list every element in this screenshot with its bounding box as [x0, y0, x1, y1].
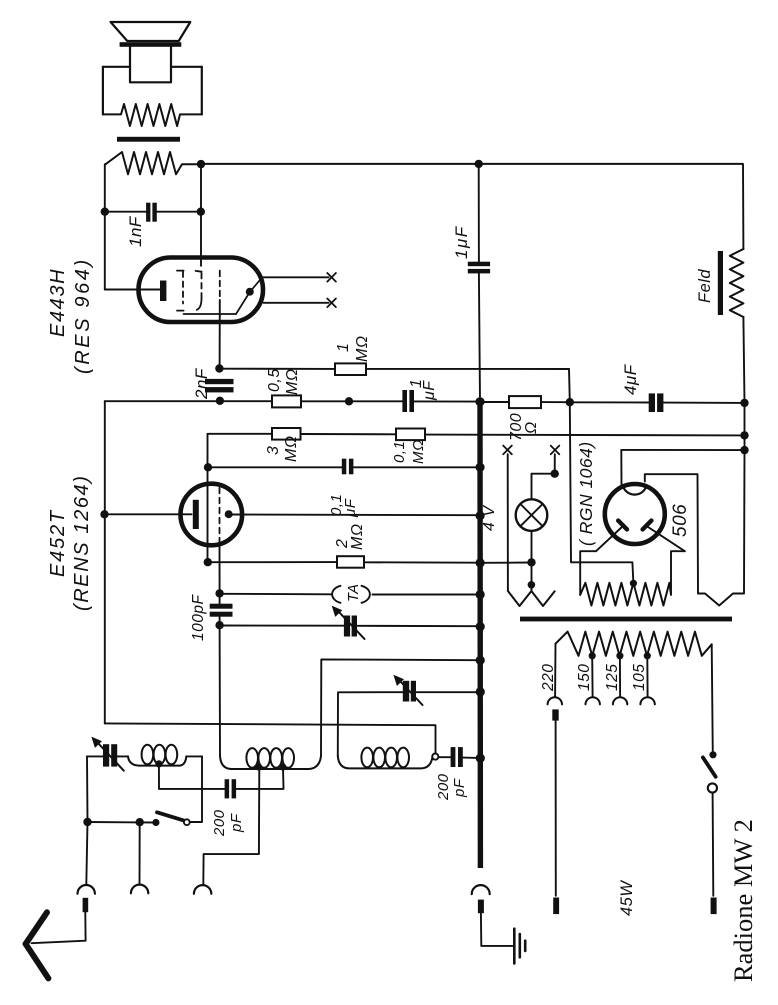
svg-text:MΩ: MΩ	[283, 436, 300, 463]
svg-text:105: 105	[631, 664, 648, 691]
svg-text:pF: pF	[228, 813, 245, 833]
svg-text:E452T: E452T	[47, 509, 69, 577]
svg-text:MΩ: MΩ	[354, 336, 371, 363]
svg-text:Feld: Feld	[696, 269, 714, 303]
svg-text:(RES 964): (RES 964)	[72, 257, 94, 374]
svg-text:Radione MW 2: Radione MW 2	[728, 819, 758, 982]
svg-text:3: 3	[265, 446, 282, 455]
svg-text:4 V: 4 V	[481, 505, 498, 531]
svg-text:μF: μF	[421, 380, 438, 401]
svg-text:150: 150	[576, 664, 593, 691]
svg-text:( RGN 1064): ( RGN 1064)	[576, 441, 596, 546]
svg-text:1nF: 1nF	[126, 215, 145, 247]
svg-text:0,1: 0,1	[391, 441, 408, 463]
svg-text:506: 506	[670, 504, 691, 537]
svg-text:200: 200	[435, 773, 452, 801]
svg-text:1μF: 1μF	[452, 225, 471, 259]
svg-text:4μF: 4μF	[621, 363, 640, 395]
svg-text:1: 1	[335, 343, 352, 352]
svg-text:MΩ: MΩ	[284, 369, 301, 396]
svg-text:pF: pF	[451, 778, 468, 798]
svg-text:MΩ: MΩ	[410, 439, 427, 464]
svg-text:200: 200	[211, 809, 228, 837]
svg-text:(RENS 1264): (RENS 1264)	[71, 474, 93, 611]
svg-text:0,5: 0,5	[266, 368, 283, 392]
svg-text:MΩ: MΩ	[349, 524, 366, 551]
svg-text:E443H: E443H	[47, 268, 69, 337]
svg-text:2nF: 2nF	[192, 367, 211, 400]
svg-text:100pF: 100pF	[190, 594, 207, 641]
svg-text:125: 125	[604, 664, 621, 691]
svg-text:TA: TA	[346, 584, 362, 602]
svg-text:220: 220	[540, 664, 557, 692]
svg-text:45W: 45W	[618, 880, 636, 916]
svg-text:Ω: Ω	[523, 421, 540, 434]
